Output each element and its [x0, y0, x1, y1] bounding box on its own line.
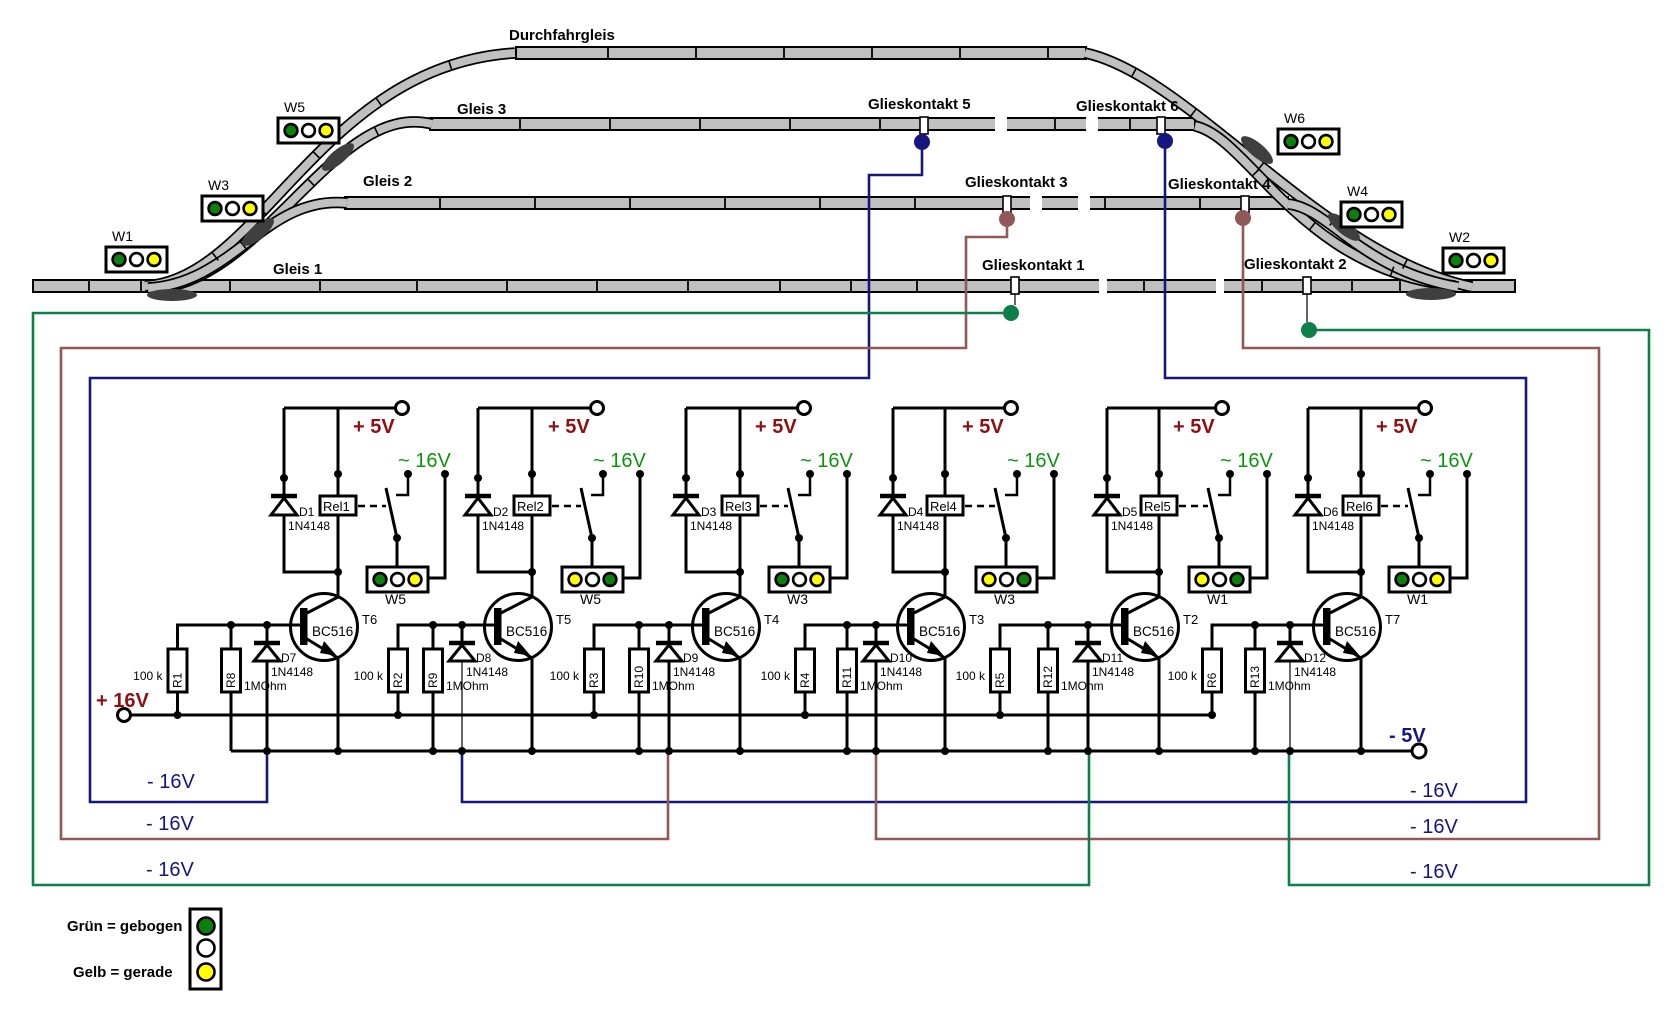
wire emitter T5 to -5V bus: [531, 658, 534, 751]
curved track Durchfahrgleis to Gleis1 (right ramp): [1085, 53, 1472, 287]
wire D4 anode to collector node: [893, 515, 945, 572]
wire D11 to -5V bus: [1087, 661, 1090, 751]
node +5V terminal T2: [1216, 402, 1229, 415]
svg-text:R1: R1: [171, 672, 185, 688]
wire D5 anode to collector node: [1107, 515, 1159, 572]
wire emitter T3 to -5V bus: [944, 658, 947, 751]
svg-text:- 16V: - 16V: [1410, 780, 1458, 802]
svg-text:Glieskontakt 4: Glieskontakt 4: [1168, 176, 1271, 193]
svg-text:1N4148: 1N4148: [482, 519, 524, 533]
relay switch blade Rel4: [995, 488, 1006, 538]
svg-text:Glieskontakt 2: Glieskontakt 2: [1244, 256, 1347, 273]
wire emitter T7 to -5V bus: [1360, 658, 1363, 751]
Glieskontakt 1 sensor tick: [1011, 277, 1019, 294]
node Glieskontakt 6: [1157, 133, 1173, 149]
relay switch blade Rel3: [788, 488, 799, 538]
diode D8 1N4148: [461, 625, 464, 641]
diode D5 1N4148: [1094, 494, 1120, 499]
node +5V terminal T4: [798, 402, 811, 415]
svg-text:R5: R5: [993, 672, 1007, 688]
track Durchfahrgleis: [516, 47, 1086, 59]
svg-text:W1: W1: [112, 228, 133, 244]
svg-text:T2: T2: [1183, 612, 1198, 627]
svg-text:BC516: BC516: [714, 624, 755, 639]
svg-text:Grün = gebogen: Grün = gebogen: [67, 918, 182, 935]
curved track branch from Gleis 3 (right): [1195, 126, 1455, 286]
wire emitter T2 to -5V bus: [1158, 658, 1161, 751]
diode D6 1N4148: [1295, 494, 1321, 499]
svg-text:Rel2: Rel2: [517, 499, 544, 514]
turnout motor W3 (left): [238, 214, 278, 250]
svg-text:1MOhm: 1MOhm: [1268, 679, 1311, 693]
wire relay to collector: [1158, 515, 1161, 598]
svg-text:T7: T7: [1385, 612, 1400, 627]
svg-text:~ 16V: ~ 16V: [1007, 450, 1060, 472]
wire switch fixed contact hook: [1418, 477, 1430, 495]
wire relay to collector: [739, 515, 742, 598]
svg-text:W5: W5: [385, 591, 406, 607]
wire R9 to -5V bus: [432, 692, 435, 751]
diode D9 1N4148: [668, 625, 671, 641]
wire relay to collector: [1360, 515, 1363, 598]
svg-text:D8: D8: [476, 651, 492, 665]
svg-text:D2: D2: [493, 505, 509, 519]
svg-text:R8: R8: [224, 672, 238, 688]
relay switch blade Rel6: [1408, 488, 1419, 538]
wire Glieskontakt 1 net (-16V green, left loop): [33, 313, 1089, 885]
relay coil Rel5: [1158, 408, 1161, 496]
+16V bus wire: [131, 714, 1214, 717]
wire Glieskontakt 5 net (-16V blue, left loop): [90, 150, 922, 802]
wire emitter T6 to -5V bus: [337, 658, 340, 751]
diode D11 1N4148: [1087, 625, 1090, 641]
wire base rail block T7: [1212, 625, 1323, 649]
svg-text:- 16V: - 16V: [146, 859, 194, 881]
svg-text:Rel6: Rel6: [1346, 499, 1373, 514]
svg-text:1N4148: 1N4148: [288, 519, 330, 533]
Glieskontakt 3 sensor tick: [1003, 196, 1011, 213]
svg-text:D6: D6: [1323, 505, 1339, 519]
svg-text:+ 5V: + 5V: [755, 416, 797, 438]
track Gleis 3: [430, 118, 1195, 130]
wire relay to collector: [531, 515, 534, 598]
svg-text:1N4148: 1N4148: [466, 665, 508, 679]
wire emitter T4 to -5V bus: [739, 658, 742, 751]
node +5V terminal T7: [1419, 402, 1432, 415]
transistor T3 BC516: [898, 594, 965, 661]
wire R2 to +16V bus: [397, 692, 400, 715]
resistor R10 1MOhm: [630, 649, 649, 692]
svg-text:1N4148: 1N4148: [897, 519, 939, 533]
signal lamp W5 (block T6): [367, 567, 428, 592]
svg-text:Glieskontakt 3: Glieskontakt 3: [965, 174, 1068, 191]
node +5V terminal T5: [591, 402, 604, 415]
wire base rail block T2: [1000, 625, 1121, 649]
wire blade to signal W5: [591, 538, 594, 567]
wire Glieskontakt 2 net (-16V green, right loop): [1289, 330, 1649, 885]
curved track branch to Gleis 2 (left): [148, 202, 347, 288]
svg-text:R3: R3: [587, 672, 601, 688]
transistor T6 BC516: [291, 594, 358, 661]
svg-text:100 k: 100 k: [956, 669, 986, 683]
svg-text:1MOhm: 1MOhm: [1061, 679, 1104, 693]
svg-text:W1: W1: [1407, 591, 1428, 607]
node Glieskontakt 2: [1301, 322, 1317, 338]
svg-text:T6: T6: [362, 612, 377, 627]
svg-text:Glieskontakt 6: Glieskontakt 6: [1076, 98, 1179, 115]
track joint ticks on left ramp: [212, 252, 219, 261]
wire R12 to -5V bus: [1047, 692, 1050, 751]
signal W4 (track): [1341, 202, 1402, 227]
svg-text:- 16V: - 16V: [1410, 816, 1458, 838]
node +5V terminal T6: [396, 402, 409, 415]
resistor R3 100k: [585, 649, 604, 692]
wire +5V top rail block T6: [284, 407, 396, 410]
diode D7 1N4148: [266, 625, 269, 641]
svg-text:R9: R9: [426, 672, 440, 688]
svg-text:BC516: BC516: [1335, 624, 1376, 639]
svg-text:1MOhm: 1MOhm: [652, 679, 695, 693]
wire base rail block T5: [398, 625, 494, 649]
signal W5 (track): [278, 118, 339, 143]
svg-text:D9: D9: [683, 651, 699, 665]
wire blade to signal W5: [396, 538, 399, 567]
transistor T4 BC516: [693, 594, 760, 661]
curved track branch from Gleis 2 (right): [1288, 204, 1458, 287]
wire base rail block T6: [178, 625, 301, 649]
resistor R2 100k: [389, 649, 408, 692]
svg-text:1N4148: 1N4148: [1294, 665, 1336, 679]
signal W3 (track): [202, 196, 263, 221]
svg-text:R13: R13: [1248, 666, 1262, 688]
svg-text:R12: R12: [1041, 666, 1055, 688]
wire R13 to -5V bus: [1254, 692, 1257, 751]
wire D6 anode to collector node: [1308, 515, 1361, 572]
wire D12 to -5V bus: [1289, 661, 1291, 751]
svg-text:1N4148: 1N4148: [1092, 665, 1134, 679]
resistor R12 1MOhm: [1039, 649, 1058, 692]
svg-text:D1: D1: [299, 505, 315, 519]
svg-text:1MOhm: 1MOhm: [244, 679, 287, 693]
svg-text:1MOhm: 1MOhm: [860, 679, 903, 693]
svg-text:+ 5V: + 5V: [962, 416, 1004, 438]
wire D1 anode to collector node: [284, 515, 338, 572]
svg-text:D12: D12: [1304, 651, 1326, 665]
svg-text:100 k: 100 k: [550, 669, 580, 683]
Glieskontakt 4 sensor tick: [1241, 196, 1249, 213]
svg-text:Rel5: Rel5: [1144, 499, 1171, 514]
wire D8 to -5V bus: [461, 661, 463, 751]
node Glieskontakt 5: [914, 134, 930, 150]
resistor R9 1MOhm: [424, 649, 443, 692]
resistor R1 100k: [168, 649, 187, 692]
relay coil Rel4: [944, 408, 947, 496]
svg-text:100 k: 100 k: [133, 669, 163, 683]
svg-text:D4: D4: [908, 505, 924, 519]
svg-text:Gleis 2: Gleis 2: [363, 173, 412, 190]
svg-text:1MOhm: 1MOhm: [446, 679, 489, 693]
track joint ticks on right ramp: [1131, 68, 1136, 78]
wire +5V top rail block T5: [478, 407, 591, 410]
wire blade to signal W3: [798, 538, 801, 567]
wire signal W5 return to ~16V: [623, 477, 640, 578]
wire diode branch D6: [1307, 408, 1310, 496]
svg-text:D11: D11: [1102, 651, 1123, 665]
wire diode branch D2: [477, 408, 480, 496]
signal W6 (track): [1278, 129, 1339, 154]
svg-text:Gleis 3: Gleis 3: [457, 101, 506, 118]
resistor R8 1MOhm: [222, 649, 241, 692]
transistor T7 BC516: [1314, 594, 1381, 661]
wire switch fixed contact hook: [591, 477, 603, 495]
svg-text:1N4148: 1N4148: [673, 665, 715, 679]
svg-text:R11: R11: [840, 667, 854, 688]
wire base rail block T4: [594, 625, 702, 649]
svg-text:W1: W1: [1207, 591, 1228, 607]
wire blade to signal W1: [1218, 538, 1221, 567]
relay switch blade Rel1: [386, 488, 397, 538]
turnout motor W2 (right, Gleis1): [1406, 288, 1456, 300]
node Glieskontakt 4: [1235, 210, 1251, 226]
svg-text:W3: W3: [208, 177, 229, 193]
svg-text:W3: W3: [994, 591, 1015, 607]
relay coil Rel2: [531, 408, 534, 496]
wire D3 anode to collector node: [686, 515, 740, 572]
svg-text:T3: T3: [969, 612, 984, 627]
relay actuation dashed link Rel4: [965, 505, 995, 508]
svg-text:BC516: BC516: [1133, 624, 1174, 639]
signal lamp W5 (block T5): [562, 567, 623, 592]
svg-text:Gleis 1: Gleis 1: [273, 261, 322, 278]
-5V bus wire: [231, 750, 1412, 753]
svg-text:D7: D7: [281, 651, 297, 665]
diode D3 1N4148: [673, 494, 699, 499]
wire signal W3 return to ~16V: [830, 477, 847, 578]
wire blade to signal W1: [1418, 538, 1421, 567]
wire Glieskontakt 4 net (-16V brown, right loop): [876, 226, 1599, 839]
svg-text:~ 16V: ~ 16V: [1420, 450, 1473, 472]
svg-text:+ 5V: + 5V: [1173, 416, 1215, 438]
svg-text:1N4148: 1N4148: [1312, 519, 1354, 533]
wire diode branch D1: [283, 408, 286, 496]
wire diode branch D5: [1106, 408, 1109, 496]
Glieskontakt 5 sensor tick: [920, 117, 928, 134]
resistor R6 100k: [1203, 649, 1222, 692]
wire switch fixed contact hook: [1005, 477, 1017, 495]
diode D10 1N4148: [875, 625, 878, 641]
svg-text:BC516: BC516: [506, 624, 547, 639]
wire diode branch D3: [685, 408, 688, 496]
wire Glieskontakt 3 net (-16V brown, left loop): [61, 227, 1007, 839]
node Glieskontakt 1: [1003, 305, 1019, 321]
svg-text:T5: T5: [556, 612, 571, 627]
svg-text:W6: W6: [1284, 110, 1305, 126]
svg-text:Durchfahrgleis: Durchfahrgleis: [509, 27, 615, 44]
wire R4 to +16V bus: [804, 692, 807, 715]
diode D2 1N4148: [465, 494, 491, 499]
transistor T2 BC516: [1112, 594, 1179, 661]
wire R6 to +16V bus: [1211, 692, 1214, 715]
turnout motor W1 (left, Gleis1): [147, 289, 197, 301]
wire base rail block T3: [805, 625, 907, 649]
wire blade to signal W3: [1005, 538, 1008, 567]
svg-text:W2: W2: [1449, 229, 1470, 245]
svg-text:~ 16V: ~ 16V: [800, 450, 853, 472]
svg-text:+ 5V: + 5V: [353, 416, 395, 438]
curved track Gleis1 to Durchfahrgleis (left ramp): [145, 53, 515, 286]
svg-text:Rel4: Rel4: [930, 499, 957, 514]
svg-text:1N4148: 1N4148: [880, 665, 922, 679]
svg-text:BC516: BC516: [919, 624, 960, 639]
wire signal W3 return to ~16V: [1037, 477, 1054, 578]
svg-text:1N4148: 1N4148: [690, 519, 732, 533]
relay actuation dashed link Rel5: [1179, 505, 1208, 508]
svg-text:Gelb = gerade: Gelb = gerade: [73, 964, 173, 981]
Glieskontakt 6 sensor tick: [1157, 117, 1165, 134]
svg-text:D3: D3: [701, 505, 717, 519]
svg-text:- 16V: - 16V: [1410, 861, 1458, 883]
svg-text:R4: R4: [798, 672, 812, 688]
wire signal W1 return to ~16V: [1450, 477, 1467, 578]
svg-text:1N4148: 1N4148: [1111, 519, 1153, 533]
svg-text:~ 16V: ~ 16V: [593, 450, 646, 472]
svg-text:~ 16V: ~ 16V: [398, 450, 451, 472]
resistor R13 1MOhm: [1246, 649, 1265, 692]
svg-text:Rel3: Rel3: [725, 499, 752, 514]
signal W1 (track): [106, 247, 167, 272]
svg-text:W5: W5: [284, 99, 305, 115]
svg-text:1N4148: 1N4148: [271, 665, 313, 679]
svg-text:- 16V: - 16V: [146, 813, 194, 835]
turnout motor W5 (left): [318, 139, 358, 175]
wire R3 to +16V bus: [593, 692, 596, 715]
relay actuation dashed link Rel2: [552, 505, 581, 508]
svg-text:100 k: 100 k: [761, 669, 791, 683]
signal lamp W1 (block T2): [1189, 567, 1250, 592]
wire D7 to -5V bus: [266, 661, 269, 751]
svg-text:D5: D5: [1122, 505, 1138, 519]
turnout motor W6 (right): [1237, 132, 1277, 168]
svg-text:W4: W4: [1347, 183, 1368, 199]
transistor T5 BC516: [485, 594, 552, 661]
svg-text:R2: R2: [391, 672, 405, 688]
signal W2 (track): [1443, 248, 1504, 273]
Glieskontakt 2 sensor tick: [1303, 277, 1311, 294]
signal lamp W1 (block T7): [1389, 567, 1450, 592]
diode D4 1N4148: [880, 494, 906, 499]
svg-text:~ 16V: ~ 16V: [1220, 450, 1273, 472]
relay actuation dashed link Rel6: [1381, 505, 1408, 508]
svg-text:W5: W5: [580, 591, 601, 607]
svg-text:W3: W3: [787, 591, 808, 607]
wire switch fixed contact hook: [798, 477, 810, 495]
resistor R4 100k: [796, 649, 815, 692]
diode D12 1N4148: [1289, 625, 1292, 641]
node Glieskontakt 3: [999, 211, 1015, 227]
relay coil Rel1: [337, 408, 340, 496]
wire R1 to +16V bus: [176, 692, 179, 715]
relay actuation dashed link Rel1: [358, 505, 386, 508]
wire switch fixed contact hook: [396, 477, 408, 495]
curved track branch to Gleis 3 (left): [152, 122, 432, 289]
node +5V terminal T3: [1005, 402, 1018, 415]
svg-text:100 k: 100 k: [1168, 669, 1198, 683]
wire R10 to -5V bus: [638, 692, 641, 751]
wire diode branch D4: [892, 408, 895, 496]
wire D9 to -5V bus: [668, 661, 671, 751]
svg-text:- 16V: - 16V: [147, 771, 195, 793]
svg-text:R10: R10: [632, 666, 646, 688]
wire R8 to -5V bus: [230, 692, 233, 751]
wire D2 anode to collector node: [478, 515, 532, 572]
diode D1 1N4148: [271, 494, 297, 499]
track Gleis 2: [345, 197, 1288, 209]
wire +5V top rail block T3: [893, 407, 1005, 410]
svg-text:Glieskontakt 1: Glieskontakt 1: [982, 257, 1085, 274]
relay switch blade Rel2: [581, 488, 592, 538]
relay switch blade Rel5: [1208, 488, 1219, 538]
legend signal: [190, 909, 221, 989]
track Gleis 1: [33, 280, 1515, 292]
svg-text:BC516: BC516: [312, 624, 353, 639]
wire relay to collector: [944, 515, 947, 598]
wire relay to collector: [337, 515, 340, 598]
relay coil Rel3: [739, 408, 742, 496]
signal lamp W3 (block T4): [769, 567, 830, 592]
turnout motor W4 (right): [1324, 209, 1364, 245]
wire +5V top rail block T4: [686, 407, 798, 410]
svg-text:D10: D10: [890, 651, 912, 665]
signal lamp W3 (block T3): [976, 567, 1037, 592]
resistor R11 1MOhm: [838, 649, 857, 692]
svg-text:Rel1: Rel1: [323, 499, 350, 514]
relay actuation dashed link Rel3: [760, 505, 788, 508]
svg-text:+ 5V: + 5V: [1376, 416, 1418, 438]
wire R11 to -5V bus: [846, 692, 849, 751]
wire +5V top rail block T2: [1107, 407, 1216, 410]
resistor R5 100k: [991, 649, 1010, 692]
wire Glieskontakt 6 net (-16V blue, right loop): [462, 149, 1526, 802]
wire signal W5 return to ~16V: [428, 477, 445, 578]
svg-text:100 k: 100 k: [354, 669, 384, 683]
wire signal W1 return to ~16V: [1250, 477, 1267, 578]
svg-text:+ 5V: + 5V: [548, 416, 590, 438]
svg-text:Glieskontakt 5: Glieskontakt 5: [868, 96, 971, 113]
wire switch fixed contact hook: [1218, 477, 1230, 495]
svg-text:T4: T4: [764, 612, 779, 627]
wire D10 to -5V bus: [875, 661, 878, 751]
svg-text:R6: R6: [1205, 672, 1219, 688]
wire R5 to +16V bus: [999, 692, 1002, 715]
wire +5V top rail block T7: [1308, 407, 1419, 410]
relay coil Rel6: [1360, 408, 1363, 496]
